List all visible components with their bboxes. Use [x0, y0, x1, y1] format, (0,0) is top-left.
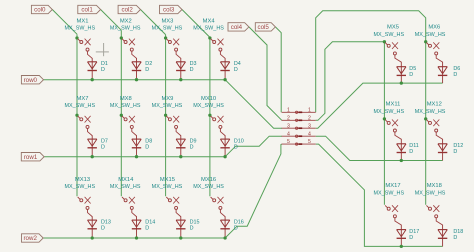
wire row2 to pin 5 — [225, 144, 282, 238]
hierarchical label col0 — [31, 5, 52, 13]
wire pin 4 to right row1 — [316, 136, 443, 160]
svg-text:D: D — [145, 225, 149, 231]
diode D8 — [132, 135, 141, 156]
svg-text:MX_SW_HS: MX_SW_HS — [152, 103, 183, 109]
switch MX5 — [385, 42, 401, 62]
switch MX16 — [211, 197, 226, 217]
svg-text:MX_SW_HS: MX_SW_HS — [110, 103, 141, 109]
junction of D13 on row wire — [91, 236, 94, 239]
junction of D17 on row wire — [400, 245, 403, 248]
svg-text:D: D — [190, 225, 194, 231]
svg-text:D: D — [101, 67, 105, 73]
hierarchical label col3 — [160, 5, 183, 13]
wire col0 column vertical — [76, 34, 78, 196]
hierarchical label row0 — [21, 76, 43, 84]
svg-text:col1: col1 — [81, 7, 93, 14]
svg-text:MX_SW_HS: MX_SW_HS — [64, 184, 95, 190]
switch MX6 — [426, 42, 442, 62]
svg-text:D7: D7 — [101, 138, 108, 144]
interconnect pin pair 5 — [282, 139, 316, 145]
wire pin 3 to right row0 — [316, 83, 443, 128]
svg-text:D: D — [409, 149, 413, 155]
wire col1 column vertical — [120, 30, 122, 196]
svg-text:MX_SW_HS: MX_SW_HS — [193, 26, 224, 32]
wire col3 column vertical — [209, 37, 211, 196]
hierarchical label col5 — [255, 23, 275, 31]
junction at top of MX3 — [164, 36, 167, 39]
svg-text:MX_SW_HS: MX_SW_HS — [373, 109, 404, 115]
svg-text:MX2: MX2 — [120, 19, 132, 25]
svg-text:D8: D8 — [145, 138, 152, 144]
svg-text:row1: row1 — [24, 154, 38, 161]
svg-text:D17: D17 — [409, 229, 419, 235]
svg-text:1: 1 — [287, 107, 290, 113]
diode D10 — [220, 135, 229, 156]
svg-text:5: 5 — [308, 139, 311, 145]
svg-text:D: D — [101, 144, 105, 150]
switch MX8 — [122, 116, 137, 136]
switch MX9 — [166, 116, 181, 136]
junction at top of MX7 — [75, 114, 78, 117]
svg-text:D: D — [234, 225, 238, 231]
junction of D15 on row wire — [179, 236, 182, 239]
hierarchical label row2 — [22, 234, 44, 242]
diode D17 — [397, 225, 406, 247]
svg-text:D: D — [453, 72, 457, 78]
svg-text:MX_SW_HS: MX_SW_HS — [193, 184, 224, 190]
junction of D7 on row wire — [91, 155, 94, 158]
svg-text:col3: col3 — [163, 7, 175, 14]
diode D2 — [132, 58, 141, 80]
svg-text:col5: col5 — [258, 24, 270, 31]
svg-text:row2: row2 — [23, 235, 37, 242]
switch MX1 — [78, 39, 93, 59]
svg-text:D16: D16 — [234, 219, 244, 225]
wire col2 column vertical — [165, 35, 167, 197]
hierarchical label col4 — [228, 23, 249, 31]
junction of D16 on row wire — [223, 236, 226, 239]
svg-text:col4: col4 — [231, 24, 243, 31]
svg-text:D2: D2 — [145, 61, 152, 67]
diode D13 — [88, 216, 97, 238]
junction at top of MX6 — [424, 40, 427, 43]
wire col4 feed — [249, 27, 282, 120]
switch MX10 — [211, 116, 226, 136]
svg-text:MX4: MX4 — [203, 19, 216, 25]
svg-text:col0: col0 — [34, 7, 46, 14]
junction at top of MX1 — [75, 36, 78, 39]
switch MX15 — [166, 197, 181, 217]
interconnect pin pair 3 — [282, 123, 316, 129]
wire col2 diagonal from label to column — [141, 10, 166, 35]
interconnect pin pair 4 — [282, 131, 316, 137]
wire col4 right column vertical — [383, 42, 385, 205]
switch MX14 — [122, 197, 137, 217]
svg-text:MX14: MX14 — [118, 177, 134, 183]
svg-text:MX_SW_HS: MX_SW_HS — [373, 32, 404, 38]
switch MX13 — [78, 197, 93, 217]
svg-text:D4: D4 — [234, 61, 241, 67]
svg-text:MX7: MX7 — [77, 96, 89, 102]
wire col3 diagonal from label to column — [182, 10, 210, 38]
svg-text:MX12: MX12 — [427, 102, 442, 108]
switch MX7 — [78, 116, 93, 136]
switch MX12 — [426, 120, 442, 140]
svg-text:MX_SW_HS: MX_SW_HS — [193, 103, 224, 109]
diode D12 — [438, 139, 447, 161]
diode D11 — [397, 139, 406, 161]
svg-text:D: D — [453, 149, 457, 155]
svg-text:3: 3 — [287, 123, 290, 129]
svg-text:MX6: MX6 — [428, 25, 440, 31]
wire row1 horizontal — [44, 156, 225, 158]
svg-text:MX13: MX13 — [75, 177, 90, 183]
svg-text:MX_SW_HS: MX_SW_HS — [152, 184, 183, 190]
diode D6 — [438, 62, 447, 83]
diode D1 — [88, 58, 97, 80]
switch MX3 — [166, 39, 181, 59]
svg-text:col2: col2 — [122, 7, 134, 14]
junction of D11 on row wire — [400, 159, 403, 162]
svg-text:MX5: MX5 — [387, 25, 399, 31]
svg-text:D: D — [101, 225, 105, 231]
svg-text:MX18: MX18 — [427, 183, 442, 189]
svg-text:D10: D10 — [234, 138, 244, 144]
switch MX18 — [426, 205, 442, 225]
diode D4 — [220, 58, 229, 80]
diode D3 — [176, 58, 185, 80]
hierarchical label col1 — [78, 5, 101, 13]
interconnect pin pair 1 — [282, 107, 316, 113]
svg-text:MX3: MX3 — [161, 19, 173, 25]
svg-text:D5: D5 — [409, 66, 416, 72]
junction of D14 on row wire — [135, 236, 138, 239]
junction at top of MX2 — [120, 36, 123, 39]
svg-text:D: D — [145, 144, 149, 150]
svg-text:D11: D11 — [409, 143, 419, 149]
hierarchical label col2 — [118, 5, 140, 13]
junction of D10 on row wire — [223, 155, 226, 158]
svg-text:MX16: MX16 — [201, 177, 216, 183]
svg-text:D: D — [145, 67, 149, 73]
junction of D3 on row wire — [179, 78, 182, 81]
svg-text:D: D — [190, 144, 194, 150]
junction at top of MX11 — [383, 117, 386, 120]
wire col1 diagonal from label to column — [101, 10, 122, 31]
svg-text:D15: D15 — [190, 219, 200, 225]
svg-text:MX_SW_HS: MX_SW_HS — [110, 26, 141, 32]
svg-text:MX_SW_HS: MX_SW_HS — [110, 184, 141, 190]
junction at top of MX4 — [208, 36, 211, 39]
junction of D8 on row wire — [135, 155, 138, 158]
junction of D4 on row wire — [223, 78, 226, 81]
diode D9 — [176, 135, 185, 156]
diode D5 — [397, 62, 406, 83]
svg-text:row0: row0 — [24, 77, 38, 84]
svg-text:MX17: MX17 — [385, 183, 400, 189]
svg-text:MX15: MX15 — [160, 177, 175, 183]
svg-text:D13: D13 — [101, 219, 111, 225]
svg-text:MX8: MX8 — [120, 96, 132, 102]
svg-text:D14: D14 — [145, 219, 155, 225]
svg-text:D12: D12 — [453, 143, 463, 149]
switch MX4 — [211, 39, 226, 59]
wire row2 horizontal — [43, 237, 225, 239]
junction at top of MX8 — [120, 114, 123, 117]
junction of D5 on row wire — [400, 81, 403, 84]
junction at top of MX10 — [208, 114, 211, 117]
svg-text:D3: D3 — [190, 61, 197, 67]
junction at top of MX12 — [424, 117, 427, 120]
svg-text:D: D — [234, 144, 238, 150]
wire col0 diagonal from label to column — [52, 10, 77, 35]
interconnect pin pair 2 — [282, 115, 316, 121]
svg-text:2: 2 — [287, 115, 290, 121]
svg-text:4: 4 — [308, 131, 311, 137]
wire row0 to pin 3 — [225, 80, 282, 129]
svg-text:MX_SW_HS: MX_SW_HS — [152, 26, 183, 32]
hierarchical label row1 — [21, 153, 44, 161]
wire row0 horizontal — [44, 79, 226, 81]
junction of D1 on row wire — [91, 78, 94, 81]
diode D15 — [176, 216, 185, 238]
wire pin 1 to col5 right column — [316, 11, 426, 205]
svg-text:MX_SW_HS: MX_SW_HS — [64, 26, 95, 32]
svg-text:MX_SW_HS: MX_SW_HS — [64, 103, 95, 109]
svg-text:D18: D18 — [453, 229, 463, 235]
svg-text:MX_SW_HS: MX_SW_HS — [415, 190, 446, 196]
junction of D2 on row wire — [135, 78, 138, 81]
editor crosshair cursor — [96, 43, 109, 56]
switch MX17 — [385, 205, 401, 225]
wire pin 2 to col4 right column — [316, 42, 385, 121]
svg-text:MX9: MX9 — [161, 96, 173, 102]
svg-text:D: D — [409, 72, 413, 78]
junction of D9 on row wire — [179, 155, 182, 158]
svg-text:D: D — [409, 235, 413, 241]
svg-text:4: 4 — [287, 131, 290, 137]
diode D14 — [132, 216, 141, 238]
wire row1 to pin 4 — [225, 136, 282, 157]
diode D16 — [220, 216, 229, 238]
diode D7 — [88, 135, 97, 156]
junction at top of MX9 — [164, 114, 167, 117]
svg-text:3: 3 — [308, 123, 311, 129]
svg-text:D9: D9 — [190, 138, 197, 144]
svg-text:D: D — [190, 67, 194, 73]
svg-text:MX10: MX10 — [201, 96, 216, 102]
svg-text:MX1: MX1 — [77, 19, 89, 25]
switch MX11 — [385, 120, 401, 140]
svg-text:D1: D1 — [101, 61, 108, 67]
svg-text:MX11: MX11 — [386, 102, 401, 108]
svg-text:MX_SW_HS: MX_SW_HS — [415, 32, 446, 38]
svg-text:2: 2 — [308, 115, 311, 121]
junction at top of MX5 — [383, 40, 386, 43]
svg-text:D: D — [234, 67, 238, 73]
svg-text:5: 5 — [287, 139, 290, 145]
diode D18 — [438, 225, 447, 247]
svg-text:D: D — [453, 235, 457, 241]
switch MX2 — [122, 39, 137, 59]
svg-text:MX_SW_HS: MX_SW_HS — [373, 190, 404, 196]
svg-text:1: 1 — [308, 107, 311, 113]
svg-text:D6: D6 — [453, 66, 460, 72]
wire col5 feed — [275, 27, 281, 112]
svg-text:MX_SW_HS: MX_SW_HS — [415, 109, 446, 115]
wire pin 5 to right row2 — [316, 144, 443, 246]
